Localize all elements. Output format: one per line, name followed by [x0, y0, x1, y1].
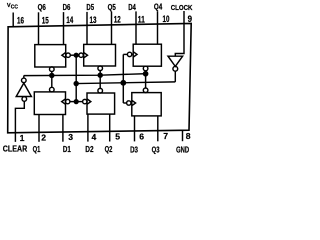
wire clock branch to FF4: [123, 53, 127, 55]
clock inverter output bubble: [173, 66, 178, 71]
clear inverter input bubble: [22, 97, 27, 102]
pin 13 D5 lead: [86, 12, 88, 45]
FF4 clock edge indicator: [133, 52, 137, 57]
junction dot clear col3: [144, 72, 148, 76]
FF5 clock edge indicator: [84, 53, 88, 58]
FF3 clock edge indicator: [132, 100, 136, 105]
wire clock drop gap1: [75, 55, 77, 101]
svg-text:3: 3: [68, 132, 73, 142]
junction dot clear col2: [98, 73, 102, 77]
svg-text:Q3: Q3: [152, 145, 160, 154]
pin 2 Q1 lead: [38, 115, 40, 142]
flip-flop FF5: [84, 44, 116, 66]
FF3 clear bubble: [143, 88, 148, 93]
svg-text:12: 12: [114, 15, 121, 25]
FF1 clock inversion bubble: [66, 99, 70, 103]
svg-text:15: 15: [42, 15, 49, 25]
pin 5 Q2 lead: [109, 114, 111, 141]
svg-text:D4: D4: [128, 3, 136, 12]
clear net: [24, 74, 148, 76]
svg-text:2: 2: [41, 133, 46, 143]
wire bubble FF1 to bubble FF2: [70, 101, 83, 103]
pin 1 CLEAR lead: [15, 101, 24, 142]
svg-text:1: 1: [20, 133, 25, 143]
pin 9 CLOCK lead: [175, 11, 184, 56]
FF6 clock inversion bubble: [66, 53, 70, 57]
pin 12 Q5 lead: [111, 12, 113, 45]
svg-text:D2: D2: [85, 145, 94, 154]
IC package outline: [8, 23, 192, 132]
svg-text:8: 8: [186, 131, 191, 141]
pin 15 Q6 lead: [38, 12, 40, 44]
FF6 clear bubble: [50, 67, 55, 72]
clock net: [76, 82, 175, 84]
svg-text:D3: D3: [130, 145, 138, 154]
FF5 clear bubble: [98, 66, 103, 71]
clock inverter U2 triangle: [168, 56, 183, 66]
wire clock inverter output: [174, 71, 176, 82]
svg-text:14: 14: [66, 15, 73, 25]
wire FF4 clear to FF3: [145, 71, 147, 88]
flip-flop FF1: [34, 92, 65, 115]
svg-text:4: 4: [92, 132, 97, 142]
svg-text:11: 11: [138, 14, 145, 24]
FF2 clear bubble: [98, 88, 103, 93]
junction dot clear col1: [50, 73, 54, 77]
svg-text:13: 13: [90, 15, 97, 25]
svg-text:GND: GND: [176, 146, 189, 155]
FF6 clock edge indicator: [62, 53, 66, 58]
FF3 clock inversion bubble: [127, 101, 131, 105]
wire clock branch to FF3: [123, 102, 126, 104]
svg-text:7: 7: [163, 131, 168, 141]
junction dot top gap1: [74, 53, 78, 57]
pin 3 D1 lead: [62, 115, 64, 142]
svg-text:16: 16: [17, 16, 24, 26]
pin 8 GND lead: [182, 130, 184, 141]
svg-text:CLEAR: CLEAR: [3, 145, 27, 154]
junction dot bottom gap1: [74, 100, 78, 104]
svg-text:Q1: Q1: [33, 145, 41, 154]
svg-text:D6: D6: [63, 3, 71, 12]
svg-text:Q2: Q2: [105, 145, 113, 154]
FF2 clock inversion bubble: [83, 99, 87, 103]
svg-text:D1: D1: [63, 145, 71, 154]
svg-text:Q4: Q4: [154, 3, 163, 12]
wire FF5 clear to FF2: [99, 71, 101, 89]
svg-text:Q6: Q6: [38, 3, 47, 12]
svg-text:9: 9: [188, 14, 192, 24]
FF5 clock inversion bubble: [79, 53, 83, 57]
svg-text:Q5: Q5: [108, 3, 117, 12]
svg-text:5: 5: [115, 132, 120, 142]
wire clock drop gap2: [122, 54, 124, 103]
FF2 clock edge indicator: [87, 99, 91, 104]
svg-text:10: 10: [163, 14, 170, 24]
flip-flop FF2: [87, 93, 115, 114]
wire FF6 clear to net: [51, 72, 53, 88]
pin 14 D6 lead: [63, 12, 65, 45]
flip-flop FF4: [133, 44, 161, 66]
wire clear inverter output: [23, 76, 25, 79]
label VCC: [7, 3, 19, 11]
FF4 clock inversion bubble: [127, 52, 131, 56]
svg-text:D5: D5: [86, 3, 94, 12]
clear inverter output bubble: [22, 78, 27, 83]
pin 16 VCC lead: [12, 13, 14, 27]
svg-text:6: 6: [139, 131, 144, 141]
junction dot clock gap2: [121, 81, 125, 85]
FF1 clear bubble: [50, 87, 55, 92]
svg-text:CLOCK: CLOCK: [171, 3, 193, 12]
FF4 clear bubble: [143, 66, 148, 71]
svg-text:CC: CC: [11, 5, 19, 11]
FF1 clock edge indicator: [62, 99, 66, 104]
flip-flop FF3: [132, 93, 161, 116]
junction dot clock gap1: [74, 82, 78, 86]
pin 7 Q3 lead: [157, 116, 159, 141]
wire bubble FF6 to bubble FF5: [70, 54, 79, 56]
pin 4 D2 lead: [87, 114, 89, 142]
pin 10 Q4 lead: [157, 11, 159, 44]
pin 11 D4 lead: [135, 11, 137, 44]
flip-flop FF6: [35, 45, 66, 67]
pin 6 D3 lead: [134, 116, 136, 141]
clear inverter U1 triangle: [16, 83, 31, 96]
